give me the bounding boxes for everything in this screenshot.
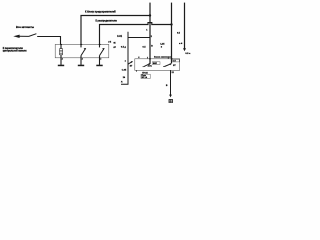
svg-text:ВКЛ: ВКЛ — [153, 63, 158, 65]
bordered label box below B2 — [141, 74, 150, 78]
svg-text:7: 7 — [147, 57, 148, 59]
wire from S1 to relay box B1 — [37, 37, 60, 45]
arrow to other page (left, pointing left) — [13, 35, 19, 38]
svg-text:2: 2 — [82, 59, 83, 61]
svg-text:1: 1 — [168, 57, 169, 59]
junction dot at (150,15.6) — [149, 14, 151, 16]
svg-text:2: 2 — [62, 59, 63, 61]
svg-text:Все автоматы: Все автоматы — [16, 25, 35, 29]
pin ticks on B1 top — [60, 43, 62, 45]
switch S2 in B1 (middle) — [80, 44, 82, 47]
svg-text:0.5 д: 0.5 д — [121, 47, 127, 49]
wire from C-01 branch to V1 — [128, 37, 150, 39]
svg-text:К блоку предохранителей: К блоку предохранителей — [85, 10, 116, 13]
switch S6 in B2 on V2 — [163, 66, 164, 68]
switch S3 in B1 (right) — [99, 44, 101, 47]
svg-text:К распределителю: К распределителю — [96, 20, 118, 22]
lower box B2 — [135, 59, 180, 71]
svg-text:Замок зажигания: Замок зажигания — [154, 56, 172, 58]
bus wire 1: from B1 up at x=80.9, corner, right to junction at x=150 — [81, 16, 150, 45]
small arrow end of W4 — [169, 95, 172, 98]
svg-text:2: 2 — [100, 59, 101, 61]
switch S4 outside B2 left — [128, 62, 132, 64]
svg-text:ACC: ACC — [148, 64, 153, 67]
supply vertical V2 at x=171.7 — [171, 3, 173, 64]
svg-text:C-01: C-01 — [117, 36, 123, 38]
pin ticks on B2 top — [149, 58, 151, 60]
connector K1 (black square) — [169, 99, 173, 103]
small label box R2 in B2 — [173, 60, 179, 62]
svg-text:БУ 2.4: БУ 2.4 — [142, 76, 147, 79]
supply vertical V1 at x=150 — [149, 3, 151, 64]
svg-text:0.5 ч: 0.5 ч — [185, 53, 191, 55]
pin stub below B2 left — [135, 70, 137, 72]
switch S5 in B2 on V1 — [143, 66, 144, 68]
svg-text:центральной панели: центральной панели — [3, 50, 27, 53]
ground G3 — [96, 65, 102, 67]
ground G2 — [78, 65, 84, 67]
supply vertical V3 at x=184.7 with arrow end — [184, 3, 186, 49]
switch S1 blade — [28, 34, 36, 37]
svg-text:05: 05 — [114, 43, 116, 45]
wire W4 from B2 down to connector — [170, 70, 172, 96]
junction dot at (171.7,24.6) — [170, 23, 172, 25]
ground G1 — [58, 65, 64, 67]
branch wire from C-01 down and left stub at bottom — [121, 32, 128, 85]
coil element in B1 on node x=61 — [60, 44, 62, 48]
bus wire 2: from B1 up at x=99.6, corner, right with hop over V1, to junction at x=171.7 — [100, 23, 172, 45]
relay box B1 — [55, 44, 109, 57]
small label box R1 in B2 — [152, 62, 160, 65]
